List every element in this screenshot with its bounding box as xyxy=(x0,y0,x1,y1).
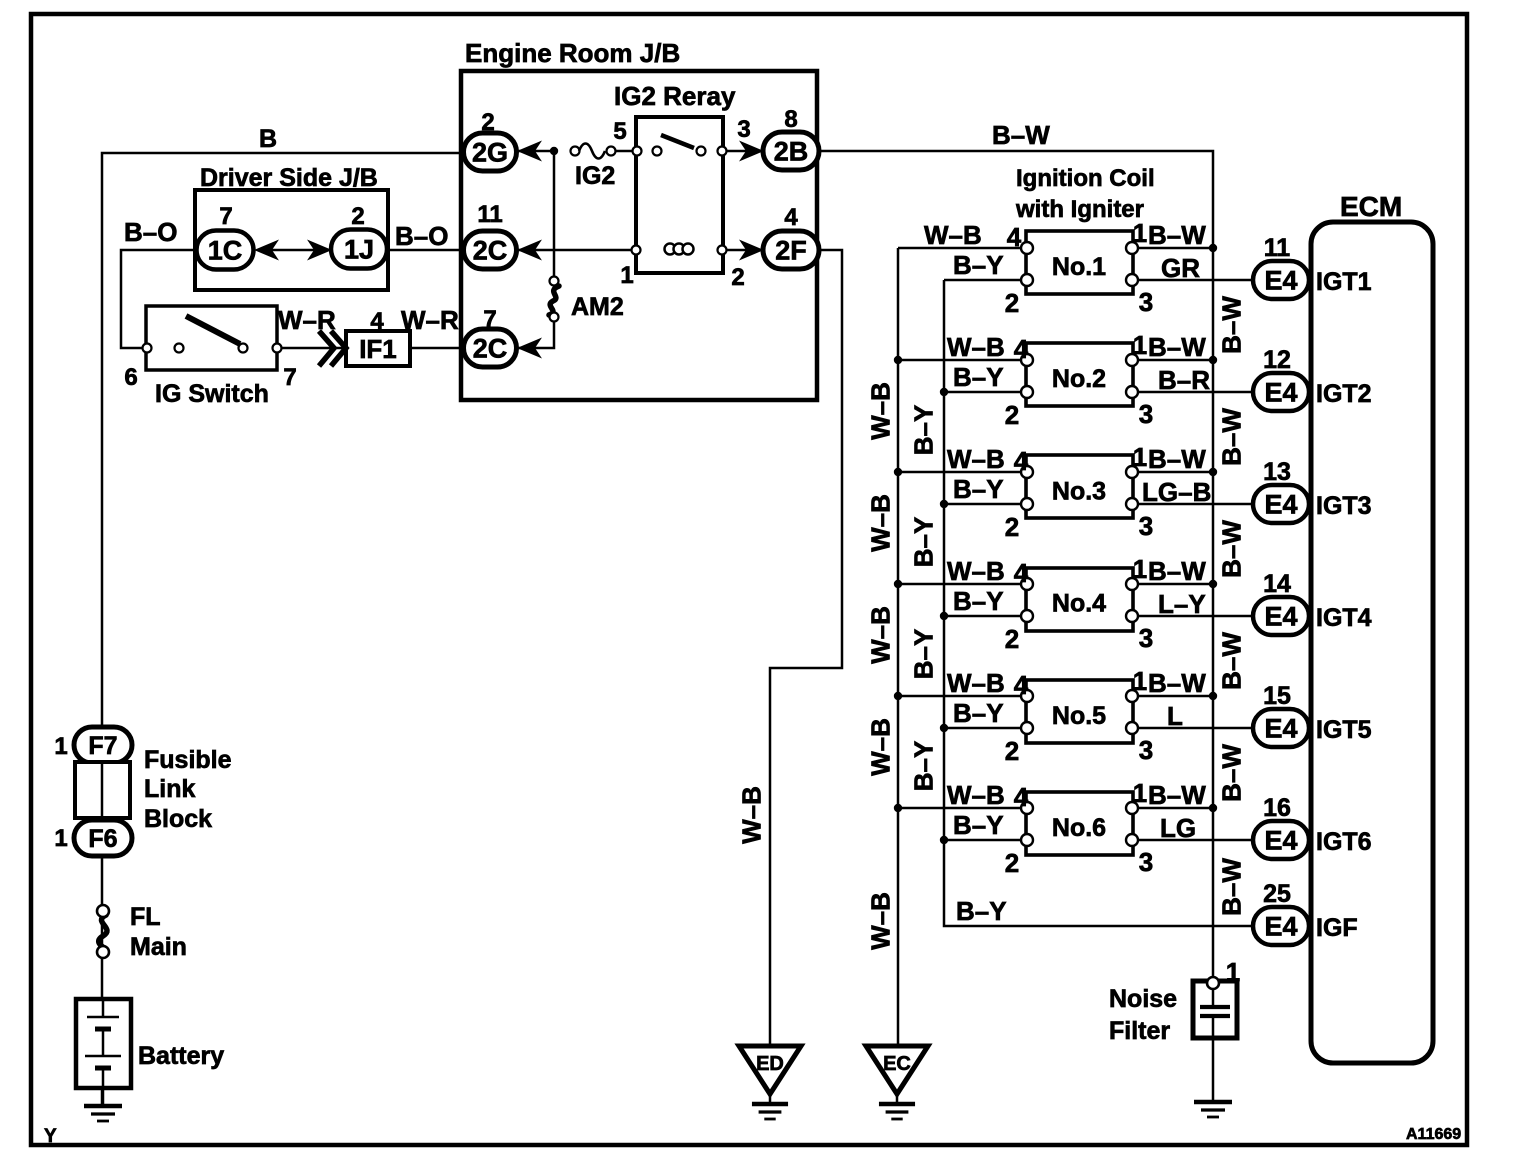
svg-text:No.1: No.1 xyxy=(1052,253,1106,281)
svg-text:8: 8 xyxy=(784,106,797,133)
svg-text:E4: E4 xyxy=(1264,266,1297,296)
svg-text:B–Y: B–Y xyxy=(908,629,938,680)
svg-text:6: 6 xyxy=(124,364,137,391)
svg-text:B–W: B–W xyxy=(1216,520,1246,578)
svg-text:E4: E4 xyxy=(1264,378,1297,408)
svg-text:1: 1 xyxy=(54,825,67,852)
svg-text:Link: Link xyxy=(144,775,195,803)
svg-text:5: 5 xyxy=(613,118,626,145)
svg-text:W–B: W–B xyxy=(865,494,895,552)
svg-text:IGT4: IGT4 xyxy=(1316,604,1372,632)
svg-text:B–Y: B–Y xyxy=(908,405,938,456)
svg-text:AM2: AM2 xyxy=(571,293,624,321)
svg-text:Driver Side J/B: Driver Side J/B xyxy=(200,164,378,192)
svg-text:B–Y: B–Y xyxy=(956,896,1007,926)
svg-text:W–B: W–B xyxy=(865,382,895,440)
svg-text:IGT3: IGT3 xyxy=(1316,492,1372,520)
svg-text:1: 1 xyxy=(1226,957,1240,987)
svg-text:Fusible: Fusible xyxy=(144,746,232,774)
svg-text:4: 4 xyxy=(1014,334,1029,364)
svg-text:B–W: B–W xyxy=(1148,668,1206,698)
svg-text:B–W: B–W xyxy=(1148,444,1206,474)
svg-text:1: 1 xyxy=(1133,778,1147,808)
svg-text:3: 3 xyxy=(1139,847,1153,877)
svg-text:B–Y: B–Y xyxy=(953,810,1004,840)
svg-text:B–W: B–W xyxy=(1216,408,1246,466)
svg-text:4: 4 xyxy=(1014,670,1029,700)
svg-text:1: 1 xyxy=(1133,666,1147,696)
svg-text:1: 1 xyxy=(1133,330,1147,360)
svg-text:W–B: W–B xyxy=(947,668,1005,698)
svg-text:LG: LG xyxy=(1160,813,1196,843)
svg-text:2: 2 xyxy=(481,109,494,136)
svg-text:B–W: B–W xyxy=(1148,780,1206,810)
svg-text:B–W: B–W xyxy=(1216,858,1246,916)
svg-text:GR: GR xyxy=(1161,253,1200,283)
svg-text:IG Switch: IG Switch xyxy=(155,380,269,408)
svg-text:E4: E4 xyxy=(1264,714,1297,744)
svg-text:W–B: W–B xyxy=(865,606,895,664)
svg-text:No.2: No.2 xyxy=(1052,365,1106,393)
svg-text:B–Y: B–Y xyxy=(953,362,1004,392)
svg-text:B–Y: B–Y xyxy=(953,586,1004,616)
svg-text:LG–B: LG–B xyxy=(1142,477,1211,507)
svg-text:2: 2 xyxy=(1005,736,1019,766)
svg-text:13: 13 xyxy=(1263,458,1291,486)
svg-text:W–B: W–B xyxy=(865,718,895,776)
svg-text:IG2 Reray: IG2 Reray xyxy=(614,81,736,111)
svg-text:Main: Main xyxy=(130,933,187,961)
svg-text:B–W: B–W xyxy=(992,120,1050,150)
svg-text:1: 1 xyxy=(1133,218,1147,248)
svg-text:IGF: IGF xyxy=(1316,914,1358,942)
svg-text:4: 4 xyxy=(1007,222,1022,252)
svg-text:W–B: W–B xyxy=(947,556,1005,586)
svg-text:2C: 2C xyxy=(473,236,508,266)
svg-text:2: 2 xyxy=(351,203,364,230)
svg-text:7: 7 xyxy=(483,306,496,333)
svg-text:1: 1 xyxy=(1133,442,1147,472)
svg-text:B–Y: B–Y xyxy=(953,698,1004,728)
svg-text:14: 14 xyxy=(1263,570,1291,598)
svg-text:B–W: B–W xyxy=(1216,296,1246,354)
svg-text:3: 3 xyxy=(1139,623,1153,653)
svg-text:2: 2 xyxy=(1005,400,1019,430)
svg-text:25: 25 xyxy=(1263,880,1291,908)
svg-text:7: 7 xyxy=(283,364,296,391)
svg-text:W–R: W–R xyxy=(278,305,336,335)
svg-text:2: 2 xyxy=(731,264,744,291)
svg-text:3: 3 xyxy=(1139,735,1153,765)
svg-text:4: 4 xyxy=(784,204,798,231)
svg-text:B–W: B–W xyxy=(1216,632,1246,690)
svg-text:2C: 2C xyxy=(473,334,508,364)
svg-text:L: L xyxy=(1167,701,1183,731)
svg-text:EC: EC xyxy=(883,1053,911,1075)
svg-text:1: 1 xyxy=(54,733,67,760)
svg-text:F6: F6 xyxy=(88,825,117,853)
svg-text:No.4: No.4 xyxy=(1052,590,1106,618)
svg-text:16: 16 xyxy=(1263,794,1291,822)
svg-text:Filter: Filter xyxy=(1109,1017,1170,1045)
svg-text:IG2: IG2 xyxy=(575,162,615,190)
svg-text:Ignition Coil: Ignition Coil xyxy=(1016,165,1155,192)
svg-text:Noise: Noise xyxy=(1109,985,1177,1013)
svg-text:4: 4 xyxy=(1014,782,1029,812)
svg-text:15: 15 xyxy=(1263,682,1291,710)
svg-text:B–Y: B–Y xyxy=(908,517,938,568)
svg-text:B–R: B–R xyxy=(1158,365,1210,395)
svg-text:12: 12 xyxy=(1263,346,1291,374)
svg-text:Y: Y xyxy=(44,1126,57,1147)
svg-text:No.3: No.3 xyxy=(1052,477,1106,505)
svg-text:E4: E4 xyxy=(1264,602,1297,632)
svg-text:FL: FL xyxy=(130,903,161,931)
svg-text:IF1: IF1 xyxy=(359,334,397,364)
svg-text:B–Y: B–Y xyxy=(908,741,938,792)
svg-text:E4: E4 xyxy=(1264,912,1297,942)
svg-text:IGT5: IGT5 xyxy=(1316,716,1372,744)
svg-text:A11669: A11669 xyxy=(1406,1126,1461,1143)
svg-text:2: 2 xyxy=(1005,288,1019,318)
svg-text:2: 2 xyxy=(1005,512,1019,542)
svg-text:4: 4 xyxy=(1014,446,1029,476)
svg-text:B: B xyxy=(259,125,277,153)
svg-text:B–O: B–O xyxy=(124,217,177,247)
svg-text:3: 3 xyxy=(737,116,750,143)
svg-text:11: 11 xyxy=(1264,234,1291,262)
svg-text:No.5: No.5 xyxy=(1052,702,1106,730)
svg-text:2: 2 xyxy=(1005,848,1019,878)
svg-text:L–Y: L–Y xyxy=(1158,589,1206,619)
svg-text:IGT2: IGT2 xyxy=(1316,380,1372,408)
svg-text:W–B: W–B xyxy=(947,332,1005,362)
svg-text:B–W: B–W xyxy=(1148,332,1206,362)
svg-text:Battery: Battery xyxy=(138,1042,224,1070)
svg-text:1: 1 xyxy=(1133,554,1147,584)
svg-text:1: 1 xyxy=(620,262,633,289)
svg-text:2G: 2G xyxy=(472,138,508,168)
svg-text:W–B: W–B xyxy=(924,220,982,250)
svg-text:11: 11 xyxy=(477,201,502,228)
svg-text:B–Y: B–Y xyxy=(953,474,1004,504)
svg-text:IGT1: IGT1 xyxy=(1316,268,1372,296)
svg-text:F7: F7 xyxy=(88,732,117,760)
svg-text:W–R: W–R xyxy=(401,305,459,335)
svg-text:1C: 1C xyxy=(208,236,243,266)
svg-text:B–Y: B–Y xyxy=(953,250,1004,280)
svg-text:7: 7 xyxy=(219,203,232,230)
svg-text:2: 2 xyxy=(1005,624,1019,654)
svg-text:W–B: W–B xyxy=(865,892,895,950)
svg-text:W–B: W–B xyxy=(736,786,766,844)
svg-text:No.6: No.6 xyxy=(1052,814,1106,842)
svg-text:E4: E4 xyxy=(1264,490,1297,520)
svg-text:W–B: W–B xyxy=(947,444,1005,474)
svg-text:B–W: B–W xyxy=(1216,744,1246,802)
svg-text:3: 3 xyxy=(1139,511,1153,541)
svg-text:4: 4 xyxy=(370,308,384,335)
svg-text:E4: E4 xyxy=(1264,826,1297,856)
svg-text:1J: 1J xyxy=(344,235,374,265)
svg-text:2F: 2F xyxy=(775,236,807,266)
svg-text:B–W: B–W xyxy=(1148,556,1206,586)
svg-text:with Igniter: with Igniter xyxy=(1015,196,1144,223)
svg-text:3: 3 xyxy=(1139,399,1153,429)
svg-text:ECM: ECM xyxy=(1340,191,1402,222)
svg-text:3: 3 xyxy=(1139,287,1153,317)
svg-text:Engine Room J/B: Engine Room J/B xyxy=(465,38,680,68)
svg-text:Block: Block xyxy=(144,805,212,833)
svg-text:4: 4 xyxy=(1014,558,1029,588)
svg-text:W–B: W–B xyxy=(947,780,1005,810)
svg-text:IGT6: IGT6 xyxy=(1316,828,1372,856)
svg-text:B–O: B–O xyxy=(395,221,448,251)
svg-text:2B: 2B xyxy=(774,137,809,167)
svg-text:ED: ED xyxy=(756,1053,784,1075)
svg-text:B–W: B–W xyxy=(1148,220,1206,250)
